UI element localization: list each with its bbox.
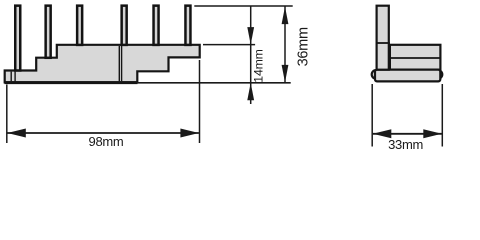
svg-text:98mm: 98mm bbox=[89, 134, 124, 149]
svg-text:33mm: 33mm bbox=[388, 137, 423, 152]
svg-text:36mm: 36mm bbox=[296, 27, 312, 66]
svg-text:14mm: 14mm bbox=[251, 49, 265, 82]
